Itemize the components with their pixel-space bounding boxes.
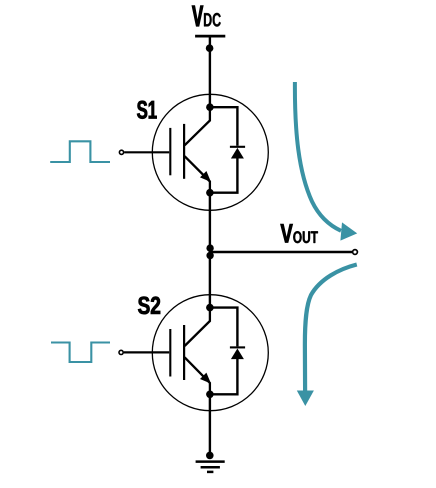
S2 emitter junction dot [206,391,214,399]
terminal VOUT [353,250,358,255]
wire S2 collector to diode D2 cathode [210,308,238,347]
VDC supply rail bar [195,35,225,38]
S1 emitter junction dot [206,189,214,197]
wire diode D1 anode to S1 emitter [210,158,238,193]
junction dot output node upper [206,244,213,251]
label VDC [192,6,221,27]
label S2 [138,297,160,315]
ground [196,462,225,472]
S2 collector junction dot [206,304,214,312]
transistor S2 emitter lead [185,357,210,394]
label S1 [137,101,156,119]
wire gate terminal to S2 gate [124,351,169,353]
drive pulse waveform S2 (negative pulse) [51,343,110,363]
wire S1 collector to diode D1 cathode [210,107,238,146]
transistor S1 gate bar [169,128,171,175]
current path arrow through S2 (bottom teal arrow) [297,265,357,407]
wire output node to VOUT terminal [210,251,352,253]
wire S1 emitter to S2 collector (output bus) [209,193,211,308]
IGBT S1 envelope circle [152,94,268,210]
transistor S1 collector lead [185,107,210,145]
gate terminal S2 [119,350,123,354]
wire diode D2 anode to S2 emitter [210,359,238,395]
transistor S2 emitter arrow [200,373,211,384]
transistor S1 emitter lead [185,156,210,193]
wire gate terminal to S1 gate [124,151,169,153]
diode D2 cathode bar [230,346,245,348]
IGBT S2 envelope circle [152,295,268,411]
junction dot output node lower [206,252,213,259]
current path arrow through S1 (top teal arrow) [295,82,357,241]
S1 collector junction dot [206,103,214,111]
drive pulse waveform S1 (positive pulse) [50,141,110,162]
junction dot VDC node [206,44,214,52]
junction dot ground node [206,452,214,460]
transistor S2 body bar [183,325,185,380]
diode D1 cathode bar [230,146,245,148]
gate terminal S1 [119,150,123,154]
transistor S1 emitter arrow [200,171,211,182]
wire VDC rail to S1 collector [209,36,211,107]
label VOUT [281,224,318,243]
transistor S2 collector lead [185,308,210,346]
transistor S2 gate bar [169,329,171,377]
wire S2 emitter to ground [209,394,211,455]
diode D1 [231,148,244,159]
transistor S1 body bar [183,124,185,179]
diode D2 [231,349,244,360]
